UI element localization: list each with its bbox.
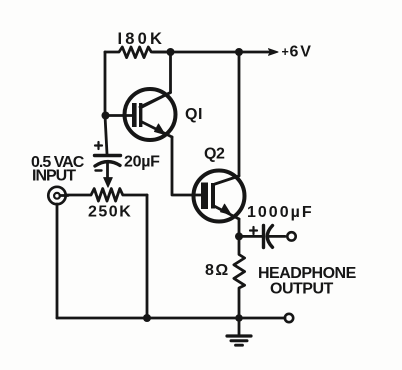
svg-text:QI: QI <box>185 106 203 123</box>
terminal headphone output minus <box>285 314 293 322</box>
ground <box>227 318 251 345</box>
wire Q1 emitter to Q2 base <box>172 137 202 195</box>
svg-text:Q2: Q2 <box>204 146 225 163</box>
svg-text:6V: 6V <box>290 44 313 61</box>
capacitor C1 20uF <box>95 156 121 179</box>
wire Q2 emitter down <box>238 219 241 236</box>
wire Q1 base <box>105 114 133 117</box>
node junction R3-bottom rail <box>235 314 243 322</box>
wire Q1 collector <box>140 52 171 107</box>
wire jack pin to pot <box>60 194 68 197</box>
potentiometer R2 250K wiper arrow <box>104 178 113 188</box>
node junction R1-collector <box>167 48 175 56</box>
svg-text:20µF: 20µF <box>124 154 160 171</box>
wire left vertical (base node to capacitor) <box>105 116 107 155</box>
wire bottom rail <box>57 317 285 320</box>
node junction rail-Q2 collector <box>235 48 243 56</box>
node junction base/cap <box>102 112 110 120</box>
transistor Q2 <box>194 171 245 222</box>
svg-text:OUTPUT: OUTPUT <box>270 281 334 298</box>
wire pot right leg down <box>146 195 149 318</box>
wire +6V rail <box>153 51 270 54</box>
polarity - of C1 <box>96 169 102 171</box>
node junction pot-bottom rail <box>143 314 151 322</box>
resistor R1 180K <box>105 47 170 58</box>
svg-text:250K: 250K <box>88 204 132 221</box>
transistor Q1 <box>125 89 176 140</box>
node junction emitter/C2/R3 <box>235 232 243 240</box>
wire Q2 collector <box>238 52 241 176</box>
resistor R3 8 ohm <box>234 236 245 318</box>
wire input jack down <box>56 204 59 318</box>
wire left vertical (rail to base node) <box>104 52 107 116</box>
svg-text:INPUT: INPUT <box>32 168 76 185</box>
svg-text:I80K: I80K <box>118 30 166 48</box>
svg-text:8Ω: 8Ω <box>205 262 230 279</box>
terminal headphone output plus <box>287 232 295 240</box>
connector J1 input jack center pin <box>54 193 60 199</box>
capacitor C2 1000uF <box>264 226 286 248</box>
potentiometer R2 250K <box>67 189 148 201</box>
svg-text:1000µF: 1000µF <box>247 204 314 221</box>
+6V arrow <box>269 49 279 56</box>
connector J1 input jack outer <box>48 187 65 204</box>
svg-text:+: + <box>282 45 289 59</box>
polarity + of C2 <box>250 227 257 234</box>
polarity + of C1 <box>95 142 102 149</box>
svg-text:HEADPHONE: HEADPHONE <box>258 265 357 282</box>
wire emitter junction to C2 <box>239 235 263 238</box>
